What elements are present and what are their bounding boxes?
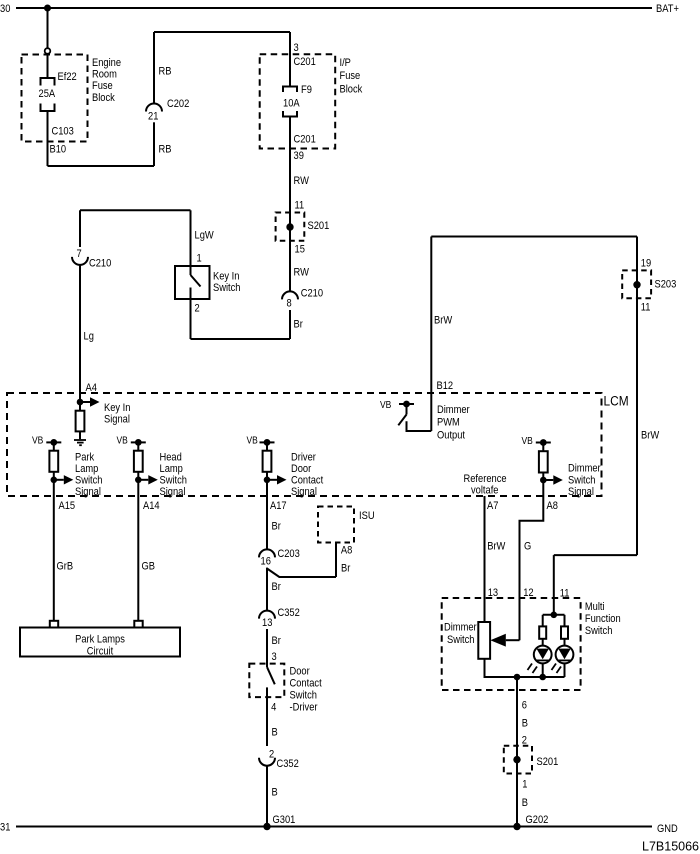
svg-text:C201: C201 xyxy=(294,56,317,68)
label A4 xyxy=(86,382,98,394)
svg-text:Key In: Key In xyxy=(104,402,130,414)
resistor key-in pull xyxy=(79,402,81,411)
label B10 xyxy=(50,144,67,156)
label 4 xyxy=(271,702,276,714)
label C201 top xyxy=(294,56,317,68)
label 21 xyxy=(148,111,159,123)
label C210 right xyxy=(301,288,324,300)
label C210 left xyxy=(89,258,112,270)
svg-text:Block: Block xyxy=(92,92,116,104)
svg-text:S201: S201 xyxy=(537,756,559,768)
svg-text:8: 8 xyxy=(287,298,292,310)
wire RW from fuse block through S201 down to C210 xyxy=(289,117,291,292)
label 11 above S201 xyxy=(295,200,305,212)
svg-text:Park: Park xyxy=(75,452,95,464)
svg-text:L7B15066: L7B15066 xyxy=(642,840,699,854)
ISU dashed box xyxy=(318,507,354,543)
svg-text:Room: Room xyxy=(92,69,117,81)
connector C352 pin 13 arc xyxy=(259,611,275,619)
svg-text:Head: Head xyxy=(160,452,183,464)
svg-text:Br: Br xyxy=(272,635,282,647)
label C202 xyxy=(167,98,190,110)
label 13 MFS xyxy=(488,587,499,599)
junction dot rail left LED xyxy=(539,674,546,681)
wire pin 11 top rail of LEDs xyxy=(543,614,565,616)
VB node park lamp xyxy=(46,441,61,443)
svg-text:voltafe: voltafe xyxy=(471,485,499,497)
VB node dimmer switch signal xyxy=(536,442,551,444)
fuse Ef22 25A xyxy=(41,78,55,86)
wire fuse to B10 corner xyxy=(47,111,49,166)
connector C210 pin 8 arc xyxy=(282,291,298,299)
label 2 xyxy=(195,303,200,315)
svg-text:G202: G202 xyxy=(526,814,549,826)
resistor park lamp pull-up xyxy=(53,442,55,450)
svg-text:Fuse: Fuse xyxy=(92,80,113,92)
label RB upper xyxy=(159,66,172,78)
label Park Lamp Switch Signal xyxy=(75,452,95,464)
label G301 xyxy=(273,814,296,826)
svg-text:Signal: Signal xyxy=(568,486,594,498)
svg-text:Contact: Contact xyxy=(290,678,322,690)
svg-text:Circuit: Circuit xyxy=(87,646,114,658)
svg-text:GrB: GrB xyxy=(57,561,74,573)
svg-text:10A: 10A xyxy=(283,98,300,110)
label A15 xyxy=(59,500,76,512)
resistor driver door pull-up xyxy=(266,442,268,450)
svg-text:Br: Br xyxy=(272,581,282,593)
svg-text:30: 30 xyxy=(0,3,11,15)
wire BrW right drop through S203 xyxy=(636,237,638,556)
svg-text:31: 31 xyxy=(0,822,11,834)
label B driver upper xyxy=(272,727,278,739)
label BAT+ xyxy=(656,3,679,15)
label C201 bottom xyxy=(294,134,317,146)
label 3 door switch xyxy=(272,651,277,663)
label C103 xyxy=(52,126,75,138)
svg-text:VB: VB xyxy=(522,435,533,446)
svg-text:Door: Door xyxy=(291,463,312,475)
LCM dashed box xyxy=(7,393,602,496)
svg-text:Switch: Switch xyxy=(75,475,102,487)
label A7 xyxy=(487,500,499,512)
svg-text:C202: C202 xyxy=(167,98,190,110)
svg-text:G: G xyxy=(524,541,531,553)
junction dot rail exit pin 6 xyxy=(514,674,521,681)
label A17 xyxy=(270,500,287,512)
label Key In Switch xyxy=(213,271,239,283)
resistor dimmer switch pull-up xyxy=(542,443,544,452)
wire horizontal to MFS pin 11 xyxy=(554,554,637,556)
svg-text:VB: VB xyxy=(247,435,258,446)
label 16 xyxy=(261,556,272,568)
wiper arrow into potentiometer xyxy=(506,639,520,641)
svg-text:Br: Br xyxy=(341,563,351,575)
svg-text:Signal: Signal xyxy=(104,414,130,426)
label Multi Function Switch xyxy=(585,601,605,613)
wire Br below C210-8 xyxy=(289,310,291,339)
splice S201 lower dot xyxy=(513,756,520,763)
wire MFS pin 6 down to G202 xyxy=(516,677,518,827)
label 2 S201 xyxy=(522,735,527,747)
ground junction G202 xyxy=(513,823,520,830)
label 10A xyxy=(283,98,300,110)
svg-text:4: 4 xyxy=(271,702,276,714)
connector C210 pin 7 arc xyxy=(72,257,88,265)
label 12 MFS xyxy=(523,587,534,599)
label 7 xyxy=(77,248,82,260)
label 11 at MFS xyxy=(560,588,570,600)
svg-text:25A: 25A xyxy=(39,88,56,100)
svg-text:C201: C201 xyxy=(294,134,317,146)
VB node dimmer pwm output xyxy=(399,403,414,405)
label B driver lower xyxy=(272,787,278,799)
svg-text:Dimmer: Dimmer xyxy=(437,404,470,416)
svg-text:BrW: BrW xyxy=(434,315,452,327)
label G202 xyxy=(526,814,549,826)
label A14 xyxy=(143,500,160,512)
svg-text:3: 3 xyxy=(272,651,277,663)
svg-text:A17: A17 xyxy=(270,500,287,512)
svg-text:VB: VB xyxy=(380,399,391,410)
VB node driver door xyxy=(260,441,275,443)
wire door switch pin 4 down xyxy=(266,687,268,746)
svg-text:Fuse: Fuse xyxy=(340,70,361,82)
splice S201 lower dashed box xyxy=(504,746,532,774)
svg-text:Engine: Engine xyxy=(92,57,121,69)
svg-text:11: 11 xyxy=(641,302,651,314)
door contact switch blade xyxy=(267,667,275,684)
wire to G301 xyxy=(266,766,268,827)
label GND xyxy=(657,823,678,835)
label 1 xyxy=(197,253,202,265)
label B12 xyxy=(437,380,454,392)
label Br A17 xyxy=(272,521,282,533)
svg-text:Br: Br xyxy=(294,319,304,331)
label RW upper xyxy=(294,175,310,187)
fuse F9 10A xyxy=(283,87,297,93)
label S203 xyxy=(655,279,677,291)
svg-text:Dimmer: Dimmer xyxy=(568,463,601,475)
junction dot top rail xyxy=(551,612,558,619)
label LCM xyxy=(604,393,629,409)
label 8 xyxy=(287,298,292,310)
label Br below C352 xyxy=(272,635,282,647)
svg-text:A4: A4 xyxy=(86,382,98,394)
svg-text:BAT+: BAT+ xyxy=(656,3,679,15)
svg-text:GND: GND xyxy=(657,823,678,835)
label S201 lower xyxy=(537,756,559,768)
wire B10 to RB riser (horizontal) xyxy=(48,165,155,167)
label G xyxy=(524,541,531,553)
I/P Fuse Block dashed box xyxy=(260,54,336,148)
label Ef22 xyxy=(58,71,78,83)
LED left xyxy=(534,646,552,664)
net 30 / BAT+ bus wire xyxy=(16,7,652,9)
label RB lower-left xyxy=(159,144,172,156)
svg-text:S203: S203 xyxy=(655,279,677,291)
svg-text:C352: C352 xyxy=(278,607,301,619)
svg-text:C210: C210 xyxy=(89,258,112,270)
wire bus to connector ring xyxy=(47,8,49,48)
svg-text:B: B xyxy=(522,797,528,809)
svg-text:C210: C210 xyxy=(301,288,324,300)
label A8 ISU xyxy=(341,545,353,557)
label C203 xyxy=(278,548,301,560)
wire Lg from C210-7 to LCM A4 xyxy=(79,265,81,402)
svg-text:15: 15 xyxy=(295,244,306,256)
wire A15 down to park lamps circuit xyxy=(53,480,55,621)
node head lamp switch signal dot and arrow xyxy=(135,477,142,484)
svg-text:Lg: Lg xyxy=(84,331,95,343)
wire down into I/P fuse block pin 3 xyxy=(289,32,291,87)
svg-text:I/P: I/P xyxy=(340,57,352,69)
svg-text:Br: Br xyxy=(272,521,282,533)
svg-text:B10: B10 xyxy=(50,144,67,156)
wire top horizontal to I/P fuse block xyxy=(154,31,290,33)
label Dimmer Switch Signal xyxy=(568,463,601,475)
label Dimmer PWM Output xyxy=(437,404,470,416)
wire dimmer pwm output to B12 xyxy=(407,421,432,431)
label VB head xyxy=(117,435,128,446)
label S201 xyxy=(308,220,330,232)
label GB xyxy=(142,561,156,573)
label 3 xyxy=(294,42,299,54)
svg-text:PWM: PWM xyxy=(437,417,460,429)
label BrW right xyxy=(641,430,659,442)
svg-text:Park Lamps: Park Lamps xyxy=(75,634,125,646)
svg-text:Signal: Signal xyxy=(291,486,317,498)
wire BrW left drop to LCM B12 xyxy=(430,237,432,432)
LED right xyxy=(556,646,574,664)
svg-text:B: B xyxy=(272,727,278,739)
svg-text:13: 13 xyxy=(262,617,273,629)
svg-text:A15: A15 xyxy=(59,500,76,512)
svg-text:B12: B12 xyxy=(437,380,454,392)
LED left light arrows xyxy=(528,664,533,671)
wire A14 down to park lamps circuit xyxy=(137,480,139,621)
wire A8 G down to MFS pin 12 xyxy=(520,480,544,640)
label VB dimmer pwm xyxy=(380,399,391,410)
wire BrW top horizontal xyxy=(431,236,637,238)
wire LgW down to key switch pin 1 xyxy=(190,210,192,275)
label Head Lamp Switch Signal xyxy=(160,452,183,464)
label Br right branch xyxy=(294,319,304,331)
label B right lower xyxy=(522,797,528,809)
label 25A xyxy=(39,88,56,100)
svg-text:VB: VB xyxy=(117,435,128,446)
svg-text:S201: S201 xyxy=(308,220,330,232)
svg-text:B: B xyxy=(522,718,528,730)
label VB park xyxy=(32,435,43,446)
label RW lower xyxy=(294,267,310,279)
svg-text:-Driver: -Driver xyxy=(290,702,319,714)
label F9 xyxy=(301,84,312,96)
wire pot bottom to rail xyxy=(485,659,565,677)
potentiometer dimmer switch xyxy=(478,622,490,659)
Door Contact Switch dashed box xyxy=(249,664,284,698)
Key In Switch box xyxy=(175,266,210,299)
wire below C352-13 xyxy=(266,629,268,667)
node park lamp switch signal dot and arrow xyxy=(51,477,58,484)
svg-text:Lamp: Lamp xyxy=(160,463,184,475)
svg-text:Output: Output xyxy=(437,430,465,442)
label 1 xyxy=(522,779,527,791)
wire ISU A8 drop xyxy=(335,543,337,577)
wire RB riser upper segment xyxy=(153,32,155,104)
wire diagonal joint from ISU branch xyxy=(267,569,336,578)
label Key In Signal xyxy=(104,402,130,414)
svg-text:2: 2 xyxy=(195,303,200,315)
label B right upper xyxy=(522,718,528,730)
svg-text:RB: RB xyxy=(159,144,172,156)
svg-text:1: 1 xyxy=(522,779,527,791)
label GrB xyxy=(57,561,74,573)
resistor head lamp pull-up xyxy=(137,442,139,450)
label Door Contact Switch -Driver xyxy=(290,666,311,678)
Engine Room Fuse Block dashed box xyxy=(22,55,88,142)
wire horizontal key-switch pin2 to Br riser xyxy=(191,338,291,340)
ground junction G301 xyxy=(263,823,270,830)
wire LgW horizontal top xyxy=(80,209,191,211)
terminal square A15 at park lamps circuit xyxy=(50,621,58,628)
svg-text:Switch: Switch xyxy=(568,475,595,487)
wire key switch pin 2 down xyxy=(190,288,192,340)
label 31 xyxy=(0,822,11,834)
label 39 xyxy=(294,150,305,162)
wire ring to fuse Ef22 xyxy=(47,54,49,78)
label VB driver door xyxy=(247,435,258,446)
svg-text:1: 1 xyxy=(197,253,202,265)
node A4 key-in signal dot and arrow xyxy=(77,399,84,406)
label A8 LCM xyxy=(547,500,559,512)
svg-text:6: 6 xyxy=(522,700,527,712)
connector ring at Engine Room Fuse Block xyxy=(45,48,51,54)
svg-text:ISU: ISU xyxy=(359,510,375,522)
wire below C203 xyxy=(266,568,268,611)
svg-text:LCM: LCM xyxy=(604,393,629,409)
connector C203 pin 16 arc xyxy=(259,549,275,557)
svg-text:16: 16 xyxy=(261,556,272,568)
svg-text:11: 11 xyxy=(295,200,305,212)
svg-text:Lamp: Lamp xyxy=(75,463,99,475)
svg-text:LgW: LgW xyxy=(195,230,215,242)
splice S201 dashed box xyxy=(276,213,305,241)
wire left drop to C210 pin 7 xyxy=(79,210,81,247)
svg-text:BrW: BrW xyxy=(641,430,659,442)
label Park Lamps Circuit xyxy=(75,634,125,646)
Multi Function Switch dashed box xyxy=(442,598,581,690)
svg-text:B: B xyxy=(272,787,278,799)
node driver door contact signal dot and arrow xyxy=(264,477,271,484)
svg-text:G301: G301 xyxy=(273,814,296,826)
svg-text:C352: C352 xyxy=(277,758,300,770)
wire down to MFS pin 11 xyxy=(553,555,555,615)
label 30 xyxy=(0,3,11,15)
connector C352 pin 2 arc xyxy=(259,758,275,766)
svg-text:A14: A14 xyxy=(143,500,160,512)
label 6 xyxy=(522,700,527,712)
svg-text:VB: VB xyxy=(32,435,43,446)
label Br below joint xyxy=(272,581,282,593)
label LgW xyxy=(195,230,215,242)
svg-text:Multi: Multi xyxy=(585,601,605,613)
label I/P Fuse Block xyxy=(340,57,352,69)
wire RB riser lower segment xyxy=(153,122,155,166)
LED right light arrows xyxy=(552,664,557,671)
label 19 xyxy=(641,258,652,270)
junction on bus at fuse drop xyxy=(44,5,51,12)
label 2 C352 xyxy=(269,749,274,761)
svg-text:Dimmer: Dimmer xyxy=(444,622,477,634)
label C352 lower xyxy=(277,758,300,770)
label Dimmer Switch inside MFS xyxy=(444,622,477,634)
svg-text:3: 3 xyxy=(294,42,299,54)
svg-text:GB: GB xyxy=(142,561,156,573)
svg-text:2: 2 xyxy=(269,749,274,761)
svg-text:A7: A7 xyxy=(487,500,499,512)
label Driver Door Contact Signal xyxy=(291,452,316,464)
label 11 below S203 xyxy=(641,302,651,314)
splice S203 dot xyxy=(633,281,640,288)
label 13 xyxy=(262,617,273,629)
net 31 / GND bus wire xyxy=(16,826,652,828)
label VB dimmer switch xyxy=(522,435,533,446)
label BrW left xyxy=(434,315,452,327)
label 15 xyxy=(295,244,306,256)
dimmer pwm switch stem and blade xyxy=(406,404,408,415)
connector C202 pin 21 arc xyxy=(146,104,162,112)
svg-text:Switch: Switch xyxy=(290,690,317,702)
label Lg xyxy=(84,331,95,343)
resistor left LED xyxy=(542,615,544,627)
svg-text:BrW: BrW xyxy=(487,541,505,553)
svg-text:A8: A8 xyxy=(341,545,353,557)
svg-text:Ef22: Ef22 xyxy=(58,71,78,83)
svg-text:Function: Function xyxy=(585,613,621,625)
svg-text:Signal: Signal xyxy=(75,486,101,498)
svg-text:21: 21 xyxy=(148,111,159,123)
wire A7 BrW down to MFS pin 13 xyxy=(484,496,486,622)
splice S201 dot xyxy=(286,223,293,230)
key in switch blade xyxy=(191,275,201,287)
svg-text:Block: Block xyxy=(340,84,364,96)
svg-text:Contact: Contact xyxy=(291,475,323,487)
svg-text:RW: RW xyxy=(294,175,310,187)
svg-text:Door: Door xyxy=(290,666,311,678)
svg-text:Switch: Switch xyxy=(213,282,240,294)
svg-text:RW: RW xyxy=(294,267,310,279)
svg-text:RB: RB xyxy=(159,66,172,78)
svg-text:C103: C103 xyxy=(52,126,75,138)
label BrW A7 xyxy=(487,541,505,553)
svg-text:Key In: Key In xyxy=(213,271,239,283)
svg-text:19: 19 xyxy=(641,258,652,270)
svg-text:39: 39 xyxy=(294,150,305,162)
Park Lamps Circuit box xyxy=(20,628,180,657)
svg-text:7: 7 xyxy=(77,248,82,260)
label Reference voltafe xyxy=(464,473,507,485)
svg-text:F9: F9 xyxy=(301,84,312,96)
label Br ISU xyxy=(341,563,351,575)
terminal square A14 at park lamps circuit xyxy=(134,621,142,628)
svg-text:Signal: Signal xyxy=(160,486,186,498)
ground internal LCM xyxy=(74,439,86,441)
wire A17 down to C203 xyxy=(266,480,268,550)
VB node head lamp xyxy=(131,441,146,443)
splice S203 dashed box xyxy=(622,270,651,298)
label ISU xyxy=(359,510,375,522)
